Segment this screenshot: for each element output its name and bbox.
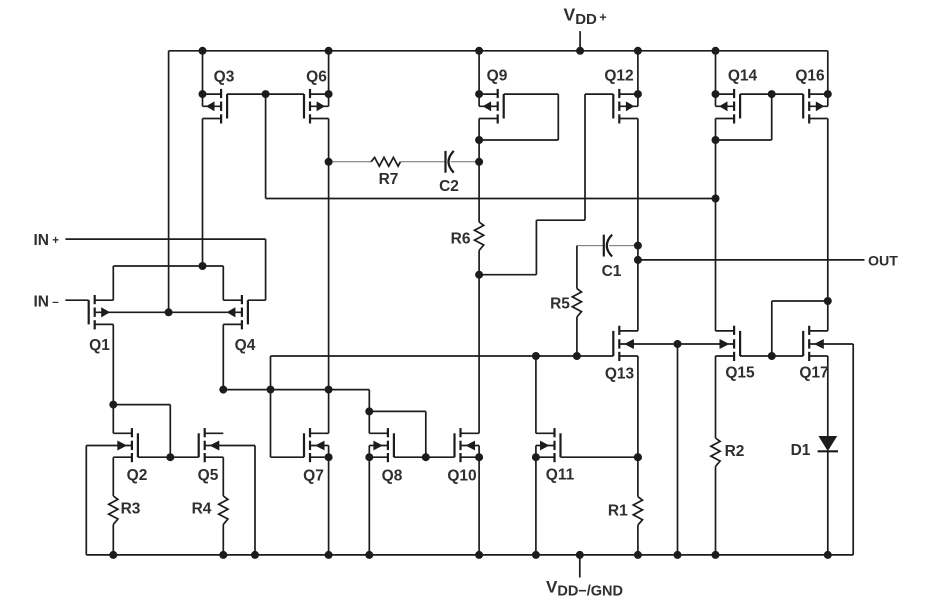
svg-text:D1: D1 xyxy=(791,442,811,459)
svg-text:C2: C2 xyxy=(439,178,459,195)
svg-text:Q16: Q16 xyxy=(795,68,825,85)
svg-text:Q4: Q4 xyxy=(235,337,256,354)
svg-text:Q17: Q17 xyxy=(799,365,828,382)
svg-text:Q12: Q12 xyxy=(604,68,633,85)
svg-text:Q1: Q1 xyxy=(89,337,110,354)
svg-text:R2: R2 xyxy=(725,443,745,460)
svg-text:Q9: Q9 xyxy=(487,68,508,85)
svg-text:IN –: IN – xyxy=(34,294,60,311)
svg-text:Q13: Q13 xyxy=(605,366,635,383)
svg-text:Q10: Q10 xyxy=(447,468,476,485)
svg-text:Q3: Q3 xyxy=(214,69,235,86)
svg-text:R7: R7 xyxy=(379,171,399,188)
svg-text:Q15: Q15 xyxy=(725,365,755,382)
svg-text:Q14: Q14 xyxy=(728,68,758,85)
svg-text:Q5: Q5 xyxy=(198,467,219,484)
svg-text:Q11: Q11 xyxy=(546,467,575,484)
svg-text:VDD +: VDD + xyxy=(564,5,607,29)
svg-text:R5: R5 xyxy=(550,296,570,313)
svg-text:OUT: OUT xyxy=(868,254,898,270)
svg-text:VDD−/GND: VDD−/GND xyxy=(546,577,623,599)
svg-text:IN +: IN + xyxy=(34,232,60,249)
svg-text:Q8: Q8 xyxy=(382,468,403,485)
svg-text:Q7: Q7 xyxy=(303,468,324,485)
svg-text:R3: R3 xyxy=(121,501,141,518)
svg-text:Q6: Q6 xyxy=(306,69,327,86)
svg-text:Q2: Q2 xyxy=(127,467,148,484)
svg-text:R1: R1 xyxy=(608,503,628,520)
svg-text:R6: R6 xyxy=(451,231,471,248)
svg-text:C1: C1 xyxy=(602,263,622,280)
svg-text:R4: R4 xyxy=(192,501,212,518)
